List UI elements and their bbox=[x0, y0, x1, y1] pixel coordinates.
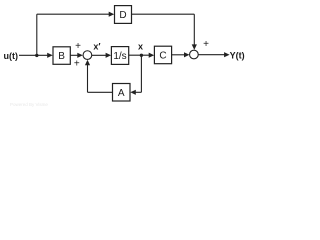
node dot at u branch bbox=[35, 54, 38, 57]
wire u(t) to B bbox=[19, 54, 49, 56]
wire B to S1 bbox=[70, 54, 79, 56]
block A bbox=[113, 84, 131, 102]
svg-text:D: D bbox=[119, 10, 126, 21]
arrowhead into S2 from top bbox=[192, 44, 197, 50]
svg-text:Powered By Visme: Powered By Visme bbox=[10, 102, 48, 107]
block 1/s (integrator) bbox=[111, 47, 128, 65]
summing junction S2 bbox=[190, 50, 199, 59]
arrowhead into C bbox=[149, 53, 155, 58]
svg-text:+: + bbox=[74, 59, 80, 70]
block C bbox=[154, 46, 171, 64]
summing junction S1 bbox=[83, 51, 92, 60]
arrowhead into B bbox=[47, 53, 53, 58]
wire feedback into A bbox=[134, 91, 142, 93]
wire up into S1 bottom bbox=[87, 63, 89, 92]
svg-text:+: + bbox=[203, 39, 209, 50]
wire C to S2 bbox=[172, 54, 187, 56]
wire branch up to D row bbox=[36, 14, 38, 55]
svg-text:u(t): u(t) bbox=[4, 51, 19, 61]
svg-text:C: C bbox=[159, 51, 166, 62]
arrowhead into S1 from bottom bbox=[85, 60, 90, 65]
arrowhead into 1/s bbox=[106, 53, 112, 58]
svg-text:1/s: 1/s bbox=[113, 51, 126, 62]
wire 1/s to C bbox=[129, 54, 151, 56]
arrowhead into D bbox=[109, 12, 115, 17]
svg-text:x′: x′ bbox=[93, 41, 100, 51]
wire down into summing junction S2 bbox=[193, 14, 195, 46]
arrowhead into A from right bbox=[130, 90, 136, 95]
wire feedback down from x node bbox=[140, 55, 142, 92]
wire D to corner bbox=[132, 13, 195, 15]
arrowhead into S1 from B bbox=[77, 53, 83, 58]
wire A to left bbox=[88, 91, 113, 93]
svg-text:Y(t): Y(t) bbox=[230, 51, 245, 61]
svg-text:A: A bbox=[118, 88, 125, 99]
block B bbox=[53, 47, 70, 65]
wire S1 to 1/s bbox=[92, 54, 108, 56]
block D bbox=[115, 6, 132, 24]
arrowhead into S2 from C bbox=[184, 52, 190, 57]
svg-text:x: x bbox=[138, 41, 143, 51]
arrowhead toward Y(t) bbox=[224, 52, 230, 57]
svg-text:B: B bbox=[58, 51, 65, 62]
wire S2 to Y(t) bbox=[198, 54, 226, 56]
wire top row into D bbox=[37, 13, 111, 15]
node dot at x branch bbox=[140, 54, 143, 57]
svg-text:+: + bbox=[75, 41, 81, 52]
